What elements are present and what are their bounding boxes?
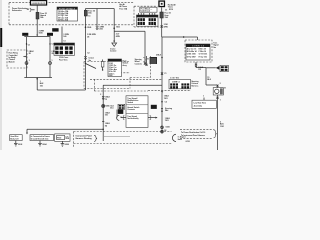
svg-text:S140: S140: [87, 26, 91, 29]
svg-text:2: 2: [220, 83, 221, 85]
label pins at horn: [203, 83, 226, 101]
steering column harness dashed boundaries: [90, 79, 191, 91]
svg-text:Control: Control: [110, 50, 117, 53]
note: power distribution schematics: [12, 7, 28, 12]
svg-text:C3: C3: [105, 99, 107, 101]
right horn connector circle: [49, 62, 52, 65]
brace into instrument panel note: [94, 135, 97, 141]
svg-text:1: 1: [52, 60, 53, 62]
switch output wire across: [103, 84, 162, 86]
fuse block label box: [140, 7, 157, 12]
svg-text:Dist: Dist: [110, 107, 114, 110]
inline connector icon T8 with arrow: [216, 65, 229, 71]
long wire down right-center: [161, 37, 163, 134]
label at switch feed connector: [89, 58, 94, 62]
right lead label tag: [151, 105, 157, 109]
svg-text:B Dk Blu 14: B Dk Blu 14: [187, 50, 197, 53]
left horn connector circle: [25, 62, 28, 65]
horn switch arm: [85, 63, 96, 69]
svg-text:1161: 1161: [164, 98, 168, 100]
svg-text:G104: G104: [42, 143, 46, 146]
label at switch output connector: [100, 94, 110, 101]
svg-text:1161: 1161: [165, 120, 169, 122]
svg-text:To Power Distribution Cell 10: To Power Distribution Cell 10: [181, 131, 205, 134]
ground label box with inner tag: [55, 134, 70, 141]
svg-text:S110: S110: [39, 33, 43, 35]
instrument panel harness dashed band D6: [74, 132, 172, 149]
wire below connector C2 right: [195, 62, 197, 68]
svg-text:150: 150: [105, 115, 108, 117]
svg-text:D Ppl 1807: D Ppl 1807: [187, 56, 196, 58]
junction X at BCM drop bottom: [144, 63, 146, 65]
ground symbol G104: [38, 141, 46, 147]
drop wire to S-branch: [113, 9, 115, 36]
svg-text:S110: S110: [169, 9, 173, 11]
splice S306 symbol: [102, 105, 105, 108]
svg-text:1: 1: [203, 95, 204, 97]
svg-text:P100: P100: [57, 137, 61, 139]
switch feed riser wire: [85, 16, 87, 90]
switch output drop wire: [102, 85, 104, 141]
svg-text:1: 1: [29, 60, 30, 62]
ground G201 symbol on long wire: [161, 126, 164, 133]
wire from fuse block label down to fuse F1: [36, 6, 38, 13]
svg-text:S2: S2: [164, 130, 166, 132]
wire from fuse F3 down through junction: [161, 18, 163, 37]
horn relay note dashed box D3: [7, 50, 27, 68]
svg-text:140: 140: [63, 35, 66, 38]
splice pack SP105 square: [158, 0, 165, 7]
svg-text:CONN C2: CONN C2: [192, 46, 205, 48]
wire from fuse F1 down to horn feed splice: [36, 19, 38, 36]
svg-text:S111: S111: [116, 26, 120, 28]
svg-text:6 B+: 6 B+: [109, 75, 113, 77]
svg-text:Controls: Controls: [135, 62, 142, 65]
svg-text:A Lt Grn 15: A Lt Grn 15: [187, 48, 196, 51]
svg-text:28: 28: [52, 53, 54, 55]
svg-text:G110: G110: [186, 141, 190, 143]
left horn label tag: [22, 33, 28, 36]
wire right horn branch: [49, 37, 51, 78]
svg-text:28: 28: [29, 53, 31, 55]
fuse F2 (hazard fuse): [84, 10, 87, 16]
label wire on switch feed: [87, 34, 96, 54]
svg-text:Gnd: Gnd: [65, 138, 69, 140]
svg-text:Harness Routing: Harness Routing: [76, 137, 93, 140]
fuse block dashed box D2: [134, 6, 164, 27]
svg-text:Instrument Panel: Instrument Panel: [76, 134, 93, 137]
steering column pin table T6: [169, 78, 191, 89]
svg-text:150: 150: [40, 85, 43, 87]
grommet curve at harness pass-through: [172, 134, 176, 141]
svg-text:Underhood: Underhood: [141, 10, 150, 12]
svg-text:C2: C2: [165, 102, 167, 104]
label splice S111: [116, 26, 120, 28]
label below C2 connector glyph: [198, 67, 204, 71]
horn ground bus wire: [24, 77, 52, 79]
junction ticks on long wire: [161, 57, 163, 103]
horn label bus wire: [24, 36, 50, 38]
wire from splice pack square down: [161, 7, 163, 12]
svg-text:G201: G201: [166, 127, 170, 129]
svg-text:CONN C1: CONN C1: [172, 81, 180, 83]
dashed sub-box D4b: [120, 56, 151, 78]
label ground wire from horns: [40, 81, 44, 87]
svg-text:Switch: Switch: [127, 101, 133, 104]
power distribution dashed region D1: [9, 3, 134, 25]
mini tag at D4b right: [150, 57, 157, 64]
note: text right of T4: [123, 61, 129, 67]
svg-text:C1: C1: [165, 10, 167, 12]
svg-text:G103: G103: [18, 144, 22, 146]
svg-text:Whl: Whl: [165, 110, 169, 112]
svg-text:Harness: Harness: [191, 85, 198, 87]
svg-text:Contacts: Contacts: [127, 108, 135, 111]
cruise list table T4: [108, 59, 122, 77]
label splice S306: [105, 105, 109, 107]
label wire right of horn supply: [220, 121, 224, 127]
turn signal connector table T5: [186, 44, 210, 60]
svg-text:28: 28: [87, 36, 89, 38]
ground wire drop from bus: [36, 78, 38, 91]
svg-text:Body Cell: Body Cell: [10, 139, 19, 141]
note right-aligned near horn wire: [180, 130, 216, 143]
ground symbol G103: [14, 141, 22, 147]
turn signal connector dashed box D5: [185, 40, 212, 62]
svg-text:C1: C1: [88, 15, 90, 17]
connector C1 pin table T3: [54, 43, 75, 61]
svg-text:Assy: Assy: [123, 64, 127, 67]
horn assembly label tick: [203, 98, 205, 101]
svg-text:Ground Beneath Cab: Ground Beneath Cab: [31, 138, 49, 141]
svg-text:1161: 1161: [220, 126, 224, 128]
svg-text:Sw Assembly: Sw Assembly: [127, 117, 138, 120]
lead to inline connector icon: [206, 67, 216, 69]
ground label box G104: [30, 135, 54, 141]
svg-text:C1: C1: [164, 73, 166, 75]
switch box left lead: [121, 116, 127, 120]
right horn label tag: [47, 33, 53, 36]
svg-text:UNDERHOOD: UNDERHOOD: [32, 3, 47, 5]
multifunction switch dashed box D4a: [84, 62, 130, 89]
label fuse F2 value: [88, 11, 95, 18]
labels on junction of long wire top: [155, 24, 169, 29]
drop wire to connector C100: [96, 9, 98, 27]
low note horn symbol: [213, 88, 223, 95]
fuse detail table T1: [57, 7, 78, 22]
label junction above ground run corner: [102, 122, 110, 128]
svg-text:H Gry 116: H Gry 116: [199, 56, 207, 58]
arrow from horn relay note: [23, 56, 26, 58]
label under off-page triangle: [110, 48, 117, 52]
fuse block pin table T2: [137, 13, 159, 26]
svg-text:52 Misc 20A: 52 Misc 20A: [58, 19, 69, 22]
inline connector glyph on switch feed: [84, 56, 86, 59]
svg-text:Face View: Face View: [59, 59, 68, 61]
svg-text:C1: C1: [63, 40, 65, 42]
labels right of T6 table: [191, 80, 198, 87]
ground label box G103: [10, 135, 23, 141]
off page triangle arrow: [113, 36, 115, 42]
wire down to horn jog: [205, 68, 207, 86]
bracket at power distribution callout: [27, 8, 35, 11]
ground wire run to switch riser: [37, 89, 85, 91]
note: instrument panel harness: [76, 134, 93, 140]
stub wire with grommet: [116, 110, 118, 118]
splice mini table T7: [118, 104, 125, 109]
svg-text:C100: C100: [99, 29, 103, 31]
label wire at C100 glyph: [99, 26, 105, 30]
ground symbol G200: [61, 141, 69, 146]
inline connector glyph on switch output: [102, 96, 104, 99]
label wire on T3 drop: [63, 34, 69, 43]
label splice S110: [39, 30, 45, 34]
low note horn assembly label box: [192, 100, 216, 108]
label wire below T6: [164, 96, 170, 104]
low note horn supply wire down to page edge: [217, 85, 219, 150]
svg-text:C2: C2: [87, 52, 89, 54]
svg-text:Module: Module: [9, 61, 15, 63]
svg-text:F Wht 16: F Wht 16: [199, 50, 206, 53]
ground run wire to left: [26, 129, 104, 135]
inline connector glyph below C2: [195, 64, 197, 67]
label wire above G201: [165, 118, 171, 122]
label wire above ground run: [105, 112, 111, 116]
note: D4b block text: [135, 58, 150, 65]
underhood fuse block header box: [30, 0, 47, 6]
fuse F3 (turn signal fuse): [160, 12, 163, 18]
label fuse F1 value: [40, 13, 47, 19]
fuse F1 (horn fuse): [36, 12, 39, 19]
label fuse F3 value: [165, 3, 177, 19]
page left edge artifact: [0, 0, 2, 150]
svg-text:Fuse 10A: Fuse 10A: [119, 7, 128, 10]
BCM drop wire: [144, 31, 146, 63]
label splice at fuse B drop: [85, 26, 92, 29]
svg-text:Schematics: Schematics: [12, 9, 22, 12]
label wire right of x206 drop: [207, 77, 211, 81]
note: hot at all times: [119, 3, 128, 10]
svg-text:2 BLK: 2 BLK: [156, 55, 162, 57]
label right horn wire colors: [52, 44, 58, 63]
label right of harness grommet: [178, 137, 186, 141]
D4b bracket and wire end: [143, 56, 147, 66]
aux label tag: [52, 28, 58, 31]
svg-text:1: 1: [220, 99, 221, 101]
top feed wire from fuse B: [86, 8, 115, 10]
svg-text:S306: S306: [105, 105, 109, 107]
label at steering diamond: [165, 107, 172, 112]
svg-text:S4: S4: [105, 124, 107, 127]
wire left horn branch: [26, 37, 28, 78]
label left horn wire colors: [29, 51, 35, 62]
cruise switch element: [101, 60, 104, 71]
grommet curve on stub: [117, 115, 120, 120]
wire across to turn signal connector: [162, 36, 198, 40]
label right of D5 box: [213, 42, 219, 48]
wire to connector table T3: [61, 27, 63, 44]
svg-text:Harn: Harn: [178, 139, 182, 141]
steering wheel diamond connector: [161, 108, 163, 112]
label G201: [164, 127, 170, 132]
svg-text:Assembly: Assembly: [194, 104, 202, 107]
wire across to BCM drop: [114, 30, 145, 32]
svg-text:2: 2: [100, 94, 101, 96]
junction on horn supply at horn top: [217, 85, 219, 99]
inline connector glyph on C100 drop: [96, 26, 98, 29]
junction X at splice pack drop: [161, 25, 163, 27]
svg-text:C1: C1: [28, 44, 30, 46]
label before T7: [110, 105, 114, 109]
svg-text:C2: C2: [52, 44, 54, 46]
note: horn relay controlled: [9, 53, 18, 64]
svg-text:G200: G200: [65, 144, 69, 146]
left lead label tag: [118, 110, 124, 114]
svg-text:115: 115: [198, 69, 201, 71]
switch box right lead: [148, 116, 158, 120]
svg-text:Low Note Horn: Low Note Horn: [194, 102, 206, 105]
turn signal / multifunction switch box: [126, 96, 148, 128]
svg-text:To Instrument Panel Harness: To Instrument Panel Harness: [181, 134, 205, 137]
